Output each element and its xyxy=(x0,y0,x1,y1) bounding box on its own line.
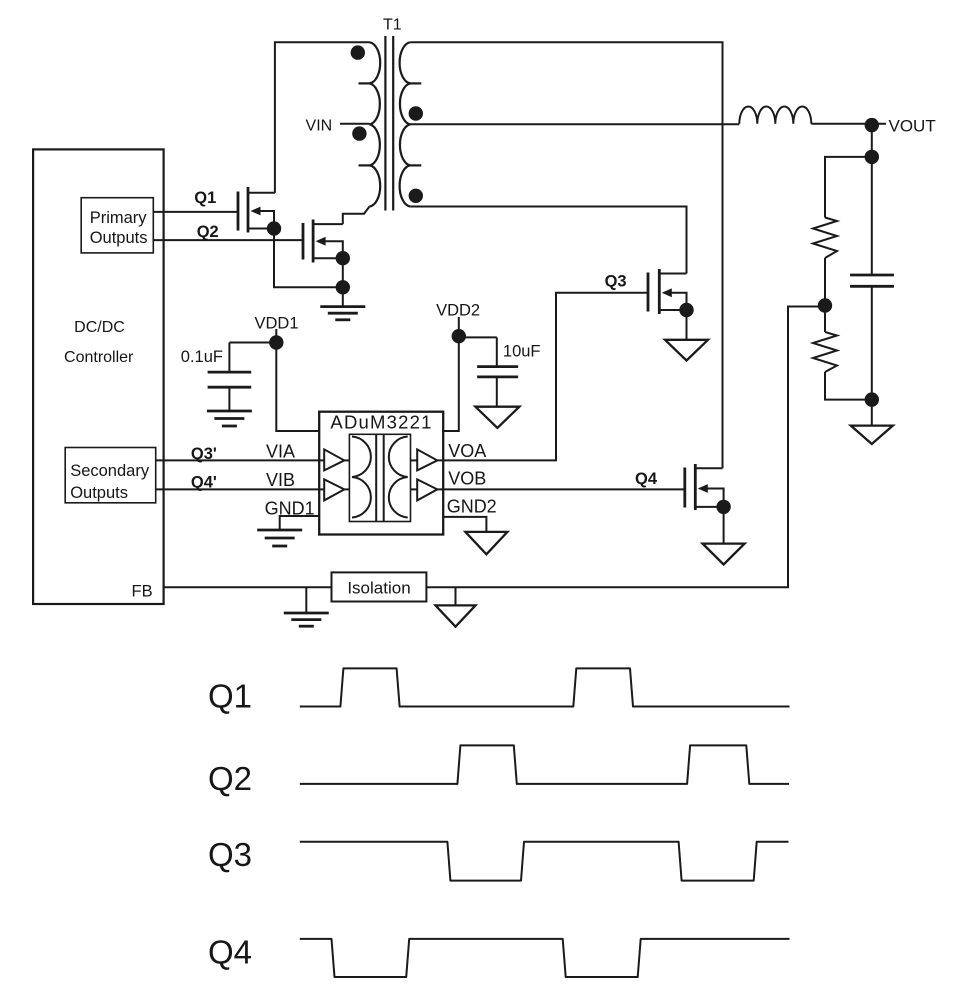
svg-text:10uF: 10uF xyxy=(503,343,541,361)
svg-text:VIA: VIA xyxy=(266,442,295,462)
svg-text:DC/DC: DC/DC xyxy=(74,319,125,336)
svg-text:Q3: Q3 xyxy=(605,273,627,291)
svg-text:T1: T1 xyxy=(383,17,402,34)
svg-text:Q3: Q3 xyxy=(208,836,252,873)
svg-text:Q4': Q4' xyxy=(191,474,217,492)
svg-text:GND1: GND1 xyxy=(265,499,315,519)
svg-text:Outputs: Outputs xyxy=(70,484,128,502)
svg-text:FB: FB xyxy=(132,583,153,601)
svg-text:VOA: VOA xyxy=(448,441,486,461)
svg-text:VIB: VIB xyxy=(266,470,295,490)
svg-text:Q4: Q4 xyxy=(208,933,252,970)
svg-text:Q3': Q3' xyxy=(191,445,217,463)
svg-text:Primary: Primary xyxy=(90,209,148,227)
svg-text:Q4: Q4 xyxy=(635,470,658,488)
svg-text:GND2: GND2 xyxy=(447,496,497,516)
svg-text:Q2: Q2 xyxy=(208,760,252,797)
svg-text:VOB: VOB xyxy=(448,469,486,489)
svg-text:Controller: Controller xyxy=(64,349,134,366)
svg-text:Outputs: Outputs xyxy=(90,229,148,247)
svg-text:Q2: Q2 xyxy=(197,223,219,241)
svg-text:VDD2: VDD2 xyxy=(436,302,480,320)
svg-text:0.1uF: 0.1uF xyxy=(181,348,223,366)
svg-text:ADuM3221: ADuM3221 xyxy=(330,412,432,433)
svg-text:Q1: Q1 xyxy=(208,678,252,715)
svg-text:VDD1: VDD1 xyxy=(255,315,299,333)
svg-text:Secondary: Secondary xyxy=(70,462,150,480)
svg-text:VIN: VIN xyxy=(306,118,333,135)
svg-text:Q1: Q1 xyxy=(194,189,216,207)
svg-text:VOUT: VOUT xyxy=(889,117,936,136)
svg-text:Isolation: Isolation xyxy=(347,579,410,598)
